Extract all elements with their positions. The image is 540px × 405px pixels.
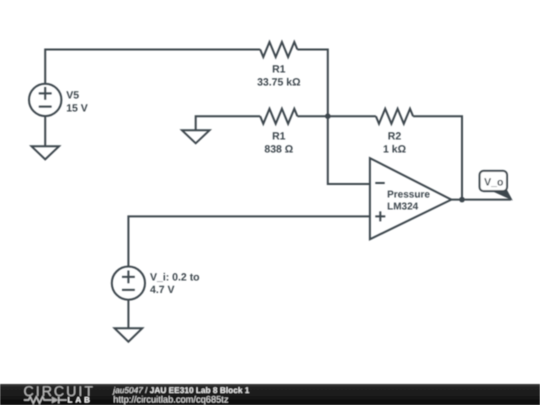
svg-text:http://circuitlab.com/cq685tz: http://circuitlab.com/cq685tz	[113, 395, 229, 405]
svg-text:15 V: 15 V	[66, 102, 88, 114]
svg-text:Pressure: Pressure	[387, 190, 430, 201]
svg-text:jau5047 / JAU EE310 Lab 8 Bloc: jau5047 / JAU EE310 Lab 8 Block 1	[112, 385, 249, 395]
svg-text:33.75 kΩ: 33.75 kΩ	[257, 77, 300, 89]
svg-text:V_i: 0.2 to: V_i: 0.2 to	[150, 272, 200, 284]
svg-text:1 kΩ: 1 kΩ	[383, 143, 406, 155]
svg-text:R1: R1	[272, 64, 286, 76]
svg-text:LAB: LAB	[68, 396, 93, 405]
svg-text:R1: R1	[272, 131, 286, 143]
svg-text:LM324: LM324	[387, 202, 419, 213]
svg-text:4.7 V: 4.7 V	[150, 284, 175, 296]
svg-text:R2: R2	[388, 131, 402, 143]
svg-text:838 Ω: 838 Ω	[264, 143, 293, 155]
svg-text:V_o: V_o	[484, 176, 503, 188]
svg-text:V5: V5	[66, 90, 79, 102]
